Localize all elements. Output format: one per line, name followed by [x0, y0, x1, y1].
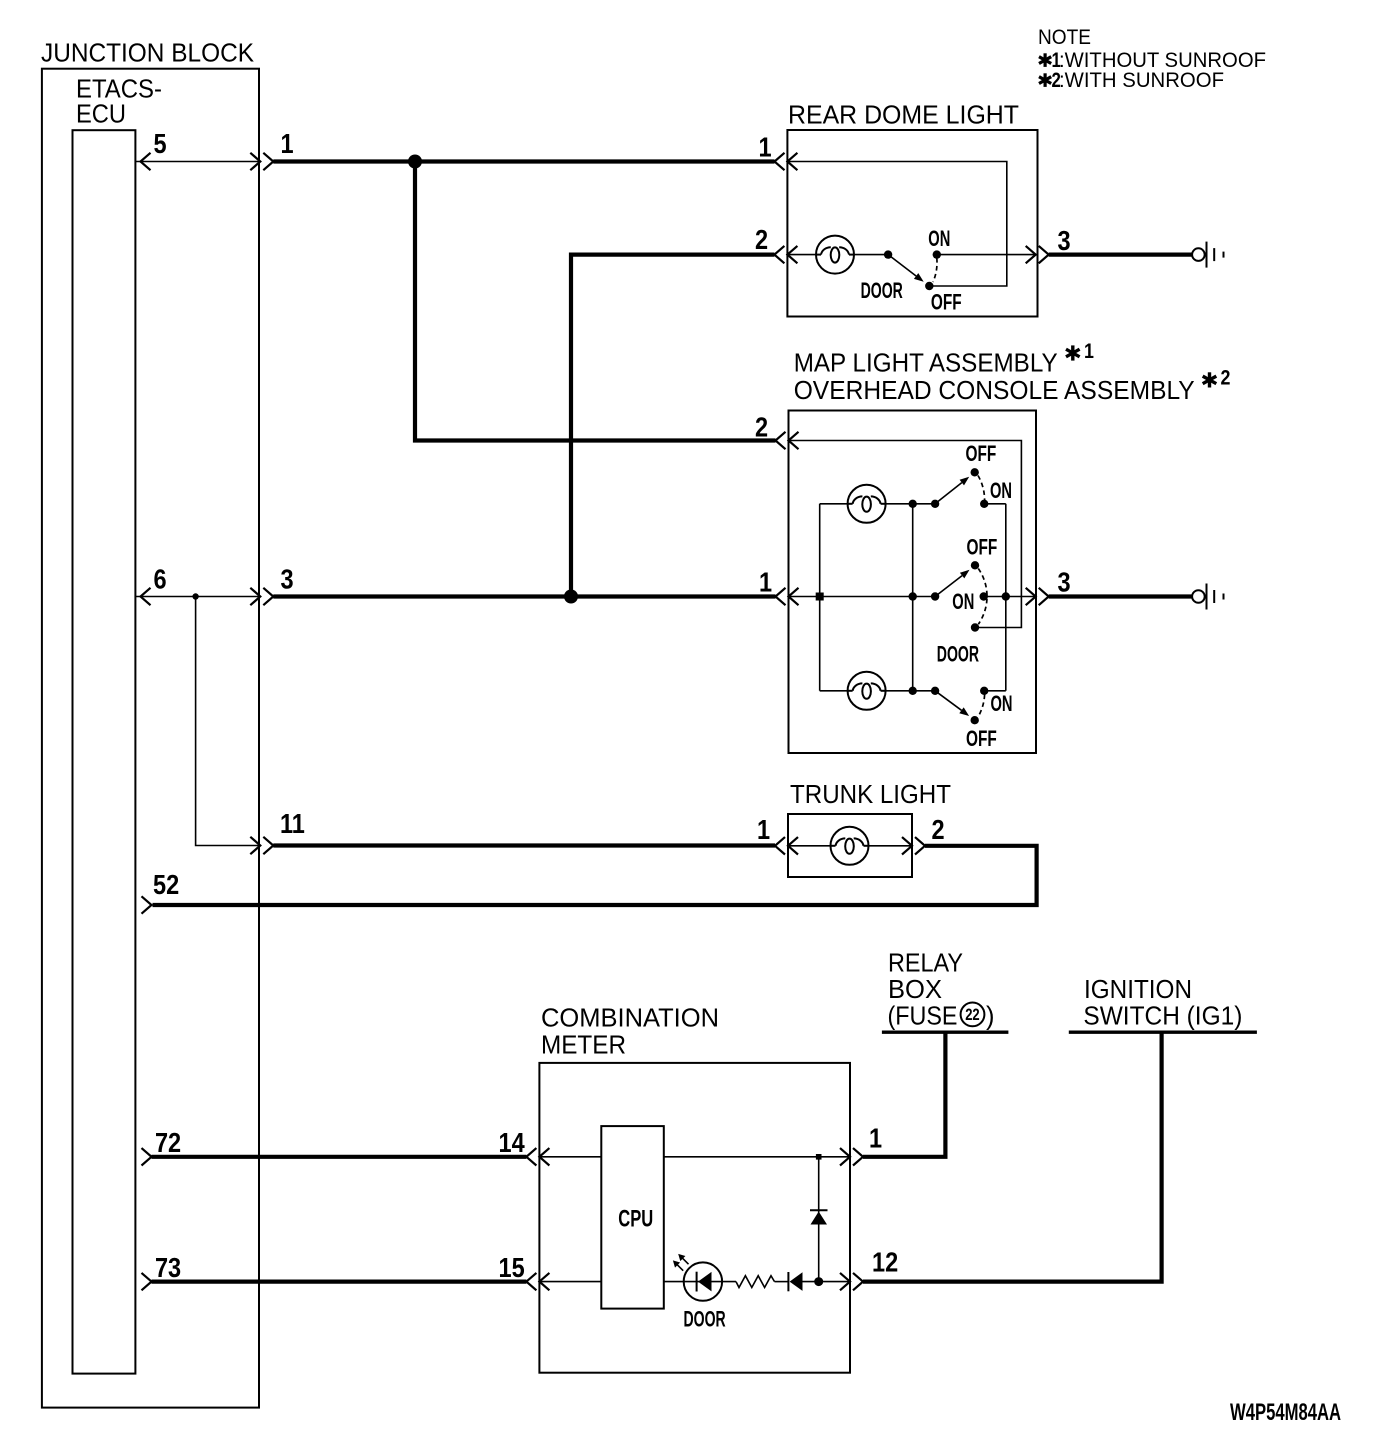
svg-text:22: 22	[965, 1007, 979, 1025]
svg-text:OFF: OFF	[931, 291, 962, 315]
wire lamp to trunk pin 2	[869, 845, 913, 847]
svg-text:DOOR: DOOR	[861, 278, 903, 303]
svg-text:TRUNK LIGHT: TRUNK LIGHT	[790, 781, 951, 809]
svg-text:METER: METER	[541, 1032, 626, 1060]
diode D2 (series, pointing left)	[788, 1272, 802, 1291]
bottom switch pivot node	[931, 687, 939, 695]
map light assembly box	[789, 411, 1037, 754]
dashed throw arc rear dome switch	[933, 258, 937, 282]
pin 52 arrow at ECU	[142, 896, 152, 913]
wire rear dome pin2 to lamp	[787, 254, 816, 256]
svg-text:3: 3	[280, 565, 293, 595]
junction block box	[42, 69, 259, 1408]
node right vertical crossing	[1002, 592, 1010, 600]
wire branch inside junction block to pin 11	[196, 597, 260, 846]
svg-text:SWITCH (IG1): SWITCH (IG1)	[1083, 1003, 1242, 1031]
wire lamp to switch pivot	[854, 254, 888, 256]
wire rear dome pin 2 branch	[571, 255, 774, 597]
svg-text:COMBINATION: COMBINATION	[541, 1005, 719, 1033]
svg-text:72: 72	[155, 1128, 181, 1158]
meter pin 12 exit arrows	[840, 1273, 850, 1290]
ignition switch bus bar	[1069, 1030, 1257, 1033]
svg-text:1: 1	[1084, 339, 1094, 363]
CPU box	[601, 1126, 664, 1309]
wire middle ON to pin 3	[984, 596, 1036, 598]
node junction of rear-dome pin2 branch	[564, 590, 578, 604]
svg-text:2: 2	[1221, 366, 1231, 390]
top switch pivot node	[931, 500, 939, 508]
ETACS-ECU box U1	[73, 130, 136, 1373]
wire diode branch vertical	[818, 1157, 820, 1282]
middle switch pivot node	[931, 592, 939, 600]
svg-text:1: 1	[759, 568, 772, 598]
map pin 1 entry arrows	[776, 588, 786, 605]
body ground symbol (map light)	[1192, 584, 1223, 610]
dashed throw arc top switch	[978, 476, 985, 501]
svg-text:): )	[986, 1003, 995, 1031]
pin 5 arrow at ECU	[141, 153, 151, 170]
wire ON contact to pin 3	[937, 254, 1036, 256]
svg-text:11: 11	[280, 809, 305, 839]
wire branch down to map light pin 2	[415, 162, 776, 441]
node diode branch top	[816, 1154, 822, 1160]
wire pin15 to CPU	[539, 1281, 601, 1283]
wire rear dome pin1 internal routing to OFF contact	[787, 162, 1006, 287]
wire trunk pin1 to lamp	[788, 845, 831, 847]
lamp trunk light	[831, 827, 869, 865]
svg-text:ON: ON	[991, 691, 1013, 716]
node middle vertical bottom	[909, 687, 917, 695]
annotation star 1	[1066, 345, 1080, 360]
rear dome pin 2 entry arrows	[774, 246, 784, 263]
svg-text:IGNITION: IGNITION	[1084, 976, 1192, 1004]
svg-text:OVERHEAD CONSOLE ASSEMBLY: OVERHEAD CONSOLE ASSEMBLY	[794, 377, 1195, 405]
wire resistor to diode	[775, 1281, 789, 1283]
svg-text:2: 2	[931, 815, 944, 845]
annotation star 2	[1203, 372, 1217, 387]
wire bottom lamp row	[820, 690, 848, 692]
node junction on pin5 wire	[408, 155, 422, 169]
svg-text:DOOR: DOOR	[684, 1306, 726, 1331]
middle switch ON node	[980, 592, 988, 600]
rear dome pin 3 exit arrows	[1026, 246, 1036, 263]
wire rear dome pin 3 to body ground	[1049, 253, 1192, 257]
top switch ON node	[980, 500, 988, 508]
meter pin 1 exit arrows	[840, 1148, 850, 1165]
lamp rear dome light	[816, 236, 854, 274]
wire top ON stub to right vertical	[984, 503, 1006, 505]
connector arrows pin 3 at junction block edge	[250, 588, 260, 605]
rear dome switch arm	[888, 255, 916, 276]
svg-text:6: 6	[154, 565, 167, 595]
wire CPU to LED and resistor	[664, 1281, 736, 1283]
lamp map light bottom	[848, 672, 886, 710]
relay box bus bar	[882, 1030, 1009, 1033]
wire ignition switch to meter pin 12	[863, 1032, 1162, 1281]
pin 6 arrow at ECU	[141, 588, 151, 605]
svg-text:ETACS-: ETACS-	[76, 76, 162, 104]
pin 73 arrow at ECU	[142, 1273, 152, 1290]
wire fuse to meter pin 1	[863, 1032, 945, 1157]
rear dome ON contact node	[933, 250, 941, 258]
svg-text:NOTE: NOTE	[1038, 26, 1091, 49]
svg-text:RELAY: RELAY	[888, 950, 963, 978]
svg-text:12: 12	[872, 1248, 898, 1278]
wire pin5/1 to rear dome light	[273, 159, 774, 163]
svg-text:73: 73	[155, 1253, 181, 1283]
svg-text:3: 3	[1058, 226, 1071, 256]
svg-text:OFF: OFF	[966, 442, 997, 466]
svg-text:15: 15	[499, 1253, 525, 1283]
connector arrows pin 1 at junction block edge	[250, 153, 260, 170]
svg-text::WITH SUNROOF: :WITH SUNROOF	[1059, 69, 1224, 92]
map pin 2 entry arrows	[776, 432, 786, 449]
wire top lamp row	[820, 503, 848, 505]
node small junction on pin6 internal wire	[192, 593, 198, 599]
wire switch common middle vertical	[912, 504, 914, 691]
wire CPU to pin 1	[664, 1156, 850, 1158]
trunk pin 1 entry arrows	[775, 837, 785, 854]
meter pin 14 entry arrows	[526, 1148, 536, 1165]
svg-text:OFF: OFF	[967, 536, 998, 560]
bottom switch OFF node	[971, 716, 979, 724]
wire pin 72 to combination meter	[152, 1155, 527, 1159]
top switch arm	[935, 483, 962, 504]
svg-text:2: 2	[755, 413, 768, 443]
middle switch OFF node	[971, 561, 979, 569]
middle switch arm	[935, 576, 962, 597]
resistor R	[736, 1276, 775, 1288]
wire map pin 3 to body ground	[1049, 594, 1192, 598]
svg-text:1: 1	[758, 133, 771, 163]
svg-text:ON: ON	[990, 478, 1012, 503]
note star 1 symbol	[1039, 53, 1051, 67]
wire lamp common left vertical	[819, 504, 821, 691]
rear dome light box	[787, 130, 1037, 317]
svg-text:DOOR: DOOR	[937, 641, 979, 666]
top switch OFF node	[971, 468, 979, 476]
pin 72 arrow at ECU	[142, 1148, 152, 1165]
wire ON common right vertical	[1005, 504, 1007, 691]
svg-text:52: 52	[153, 870, 179, 900]
svg-text:ON: ON	[928, 226, 950, 251]
svg-text:1: 1	[280, 129, 293, 159]
rear dome OFF contact node	[925, 282, 933, 290]
svg-text:1: 1	[869, 1124, 882, 1154]
dashed throw arc bottom switch	[978, 695, 985, 718]
wire pin 73 to combination meter	[152, 1279, 527, 1283]
svg-text:14: 14	[499, 1128, 526, 1158]
svg-text:BOX: BOX	[888, 976, 942, 1004]
bottom switch arm	[935, 691, 961, 711]
svg-text:(FUSE: (FUSE	[888, 1003, 958, 1031]
body ground symbol (rear dome)	[1192, 242, 1223, 268]
middle switch DOOR node	[971, 623, 979, 631]
lamp map light top	[848, 485, 886, 523]
svg-text:CPU: CPU	[618, 1206, 653, 1233]
wire pin6 inside junction block	[135, 596, 259, 598]
svg-text:MAP LIGHT ASSEMBLY: MAP LIGHT ASSEMBLY	[794, 350, 1058, 378]
trunk light box	[788, 814, 912, 877]
node lamp feed junction	[816, 593, 824, 601]
rear dome door switch pivot node	[884, 250, 892, 258]
wire pin 11 to trunk light	[273, 843, 775, 847]
wire map pin1 to switch pivot	[789, 596, 936, 598]
svg-text:OFF: OFF	[966, 727, 997, 751]
wire trunk light return to pin 52	[153, 846, 1037, 905]
combination meter box	[539, 1063, 850, 1373]
wire bottom ON stub to right vertical	[984, 690, 1006, 692]
meter pin 15 entry arrows	[526, 1273, 536, 1290]
node diode branch bottom	[814, 1277, 823, 1286]
note star 2 symbol	[1039, 73, 1051, 87]
svg-text:JUNCTION BLOCK: JUNCTION BLOCK	[41, 40, 254, 68]
wire pin5 inside junction block	[135, 161, 259, 163]
LED door indicator	[684, 1262, 722, 1300]
svg-text:REAR DOME LIGHT: REAR DOME LIGHT	[788, 102, 1019, 130]
svg-text:3: 3	[1058, 568, 1071, 598]
bottom switch ON node	[980, 687, 988, 695]
svg-text:ON: ON	[952, 589, 974, 614]
wire pin14 to CPU	[539, 1156, 601, 1158]
fuse 22 circle	[961, 1003, 985, 1027]
trunk pin 2 exit arrows	[902, 837, 912, 854]
dashed throw arc middle switch	[978, 569, 987, 625]
svg-text:W4P54M84AA: W4P54M84AA	[1230, 1399, 1341, 1426]
rear dome pin 1 entry arrows	[775, 153, 785, 170]
svg-text:1: 1	[757, 815, 770, 845]
node middle vertical top	[909, 500, 917, 508]
map pin 3 exit arrows	[1026, 588, 1036, 605]
wire pin6/3 to map light pin 1	[273, 594, 775, 598]
svg-text:ECU: ECU	[76, 101, 126, 129]
wire diode to pin 12	[803, 1281, 851, 1283]
connector arrows pin 11 at junction block edge	[250, 837, 260, 854]
diode D1 (branch, pointing up)	[810, 1210, 828, 1224]
LED emission arrows	[673, 1254, 689, 1271]
node middle vertical centre	[909, 592, 917, 600]
wire map pin2 internal routing to DOOR contact	[789, 441, 1022, 628]
svg-text:2: 2	[755, 225, 768, 255]
svg-text:5: 5	[154, 129, 167, 159]
